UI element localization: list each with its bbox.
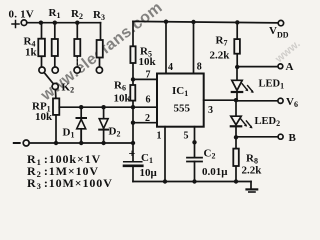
node D2 bottom junction bbox=[101, 141, 105, 145]
wire top-left rail bbox=[27, 22, 101, 24]
switch K2 wiper arm bbox=[44, 73, 53, 84]
LED2 bbox=[231, 101, 253, 138]
wire column to pin2 bbox=[132, 107, 134, 143]
node pin5 junction bbox=[192, 140, 196, 144]
svg-text:8: 8 bbox=[197, 62, 202, 73]
resistor R7 bbox=[234, 22, 240, 67]
node left rail junction bbox=[131, 141, 135, 145]
node pin7 junction bbox=[131, 77, 135, 81]
node R2 junction bbox=[75, 21, 79, 25]
wire K2 to RP1 bbox=[54, 90, 57, 99]
wire pin 6 bbox=[133, 106, 157, 108]
resistor R6 bbox=[130, 79, 135, 107]
diode D1 bbox=[77, 107, 87, 143]
resistor R3 bbox=[97, 23, 103, 67]
wire pin 3 bbox=[204, 99, 236, 101]
svg-text:6: 6 bbox=[146, 95, 151, 106]
svg-text:10k: 10k bbox=[35, 111, 53, 123]
watermark www.elecfans.com diagonal bbox=[37, 0, 302, 105]
resistor R2 bbox=[74, 23, 80, 67]
node D2 top junction bbox=[101, 105, 105, 109]
wire pin 1 bbox=[164, 127, 166, 182]
wire pin 5 bbox=[194, 127, 196, 158]
svg-text:1k: 1k bbox=[25, 47, 38, 59]
op-amp IC1 555 timer box bbox=[157, 74, 204, 127]
node R7 top junction bbox=[235, 20, 239, 24]
svg-text:555: 555 bbox=[174, 103, 191, 115]
node R8 bottom junction bbox=[234, 179, 238, 183]
svg-text:A: A bbox=[286, 61, 294, 73]
node R4 junction bbox=[39, 21, 43, 25]
node pin8 junction bbox=[191, 20, 195, 24]
switch K2 selector contacts bbox=[39, 67, 45, 73]
LED1 bbox=[232, 67, 254, 100]
node - input terminal bbox=[14, 140, 29, 146]
potentiometer RP1 bbox=[53, 98, 59, 143]
node pin2 junction bbox=[131, 121, 135, 125]
wire bottom-left rail bbox=[29, 142, 133, 144]
node terminal B bbox=[278, 134, 283, 139]
svg-text:0. 1V: 0. 1V bbox=[9, 9, 34, 21]
svg-text:5: 5 bbox=[184, 130, 189, 141]
node B junction bbox=[234, 135, 238, 139]
wire bottom rail bbox=[133, 181, 251, 183]
node A junction bbox=[235, 65, 239, 69]
node D1 bottom junction bbox=[79, 141, 83, 145]
node pin1 bottom junction bbox=[163, 179, 167, 183]
svg-text:2.2k: 2.2k bbox=[210, 50, 231, 62]
svg-text:2.2k: 2.2k bbox=[242, 165, 263, 177]
svg-text:3: 3 bbox=[208, 105, 213, 116]
wire pin 7 bbox=[133, 78, 157, 80]
node terminal V6 bbox=[278, 98, 283, 103]
capacitor C1 bbox=[124, 143, 143, 182]
wire to terminal V6 bbox=[236, 100, 278, 102]
svg-text:+: + bbox=[129, 146, 136, 160]
wire top rail right bbox=[133, 21, 278, 23]
wire RP1 wiper to pin6 line bbox=[59, 106, 133, 108]
wire pin 2 bbox=[133, 122, 157, 124]
node pin6 junction bbox=[131, 105, 135, 109]
node terminal A bbox=[278, 64, 283, 69]
svg-text:B: B bbox=[289, 132, 297, 144]
diode D2 bbox=[99, 107, 108, 143]
ground bbox=[247, 182, 258, 193]
node D1 top junction bbox=[79, 105, 83, 109]
svg-text:10k: 10k bbox=[139, 56, 157, 68]
capacitor C2 bbox=[187, 158, 202, 182]
wire to terminal B bbox=[236, 136, 278, 138]
wire to terminal A bbox=[237, 66, 278, 68]
node pin4 junction bbox=[164, 20, 168, 24]
power terminal VDD bbox=[278, 20, 283, 25]
node C2 bottom junction bbox=[192, 179, 196, 183]
switch K2 common contact bbox=[52, 83, 58, 89]
node + input terminal 0.1V bbox=[12, 20, 27, 28]
node R1 junction bbox=[53, 21, 57, 25]
node RP1 bottom junction bbox=[54, 141, 58, 145]
svg-text:0.01μ: 0.01μ bbox=[202, 166, 228, 178]
svg-text:4: 4 bbox=[168, 62, 173, 73]
svg-text:7: 7 bbox=[146, 70, 151, 81]
resistor R1 bbox=[52, 23, 58, 67]
wire pin 8 bbox=[193, 22, 195, 74]
resistor R5 bbox=[130, 21, 135, 79]
svg-text:10k: 10k bbox=[114, 93, 132, 105]
resistor R8 bbox=[233, 137, 239, 181]
node V6 junction bbox=[234, 98, 238, 102]
wire pin 4 bbox=[165, 22, 167, 74]
resistor R4 bbox=[38, 23, 45, 67]
svg-text:2: 2 bbox=[145, 113, 150, 124]
svg-text:10μ: 10μ bbox=[140, 167, 158, 179]
svg-text:1: 1 bbox=[157, 130, 162, 141]
